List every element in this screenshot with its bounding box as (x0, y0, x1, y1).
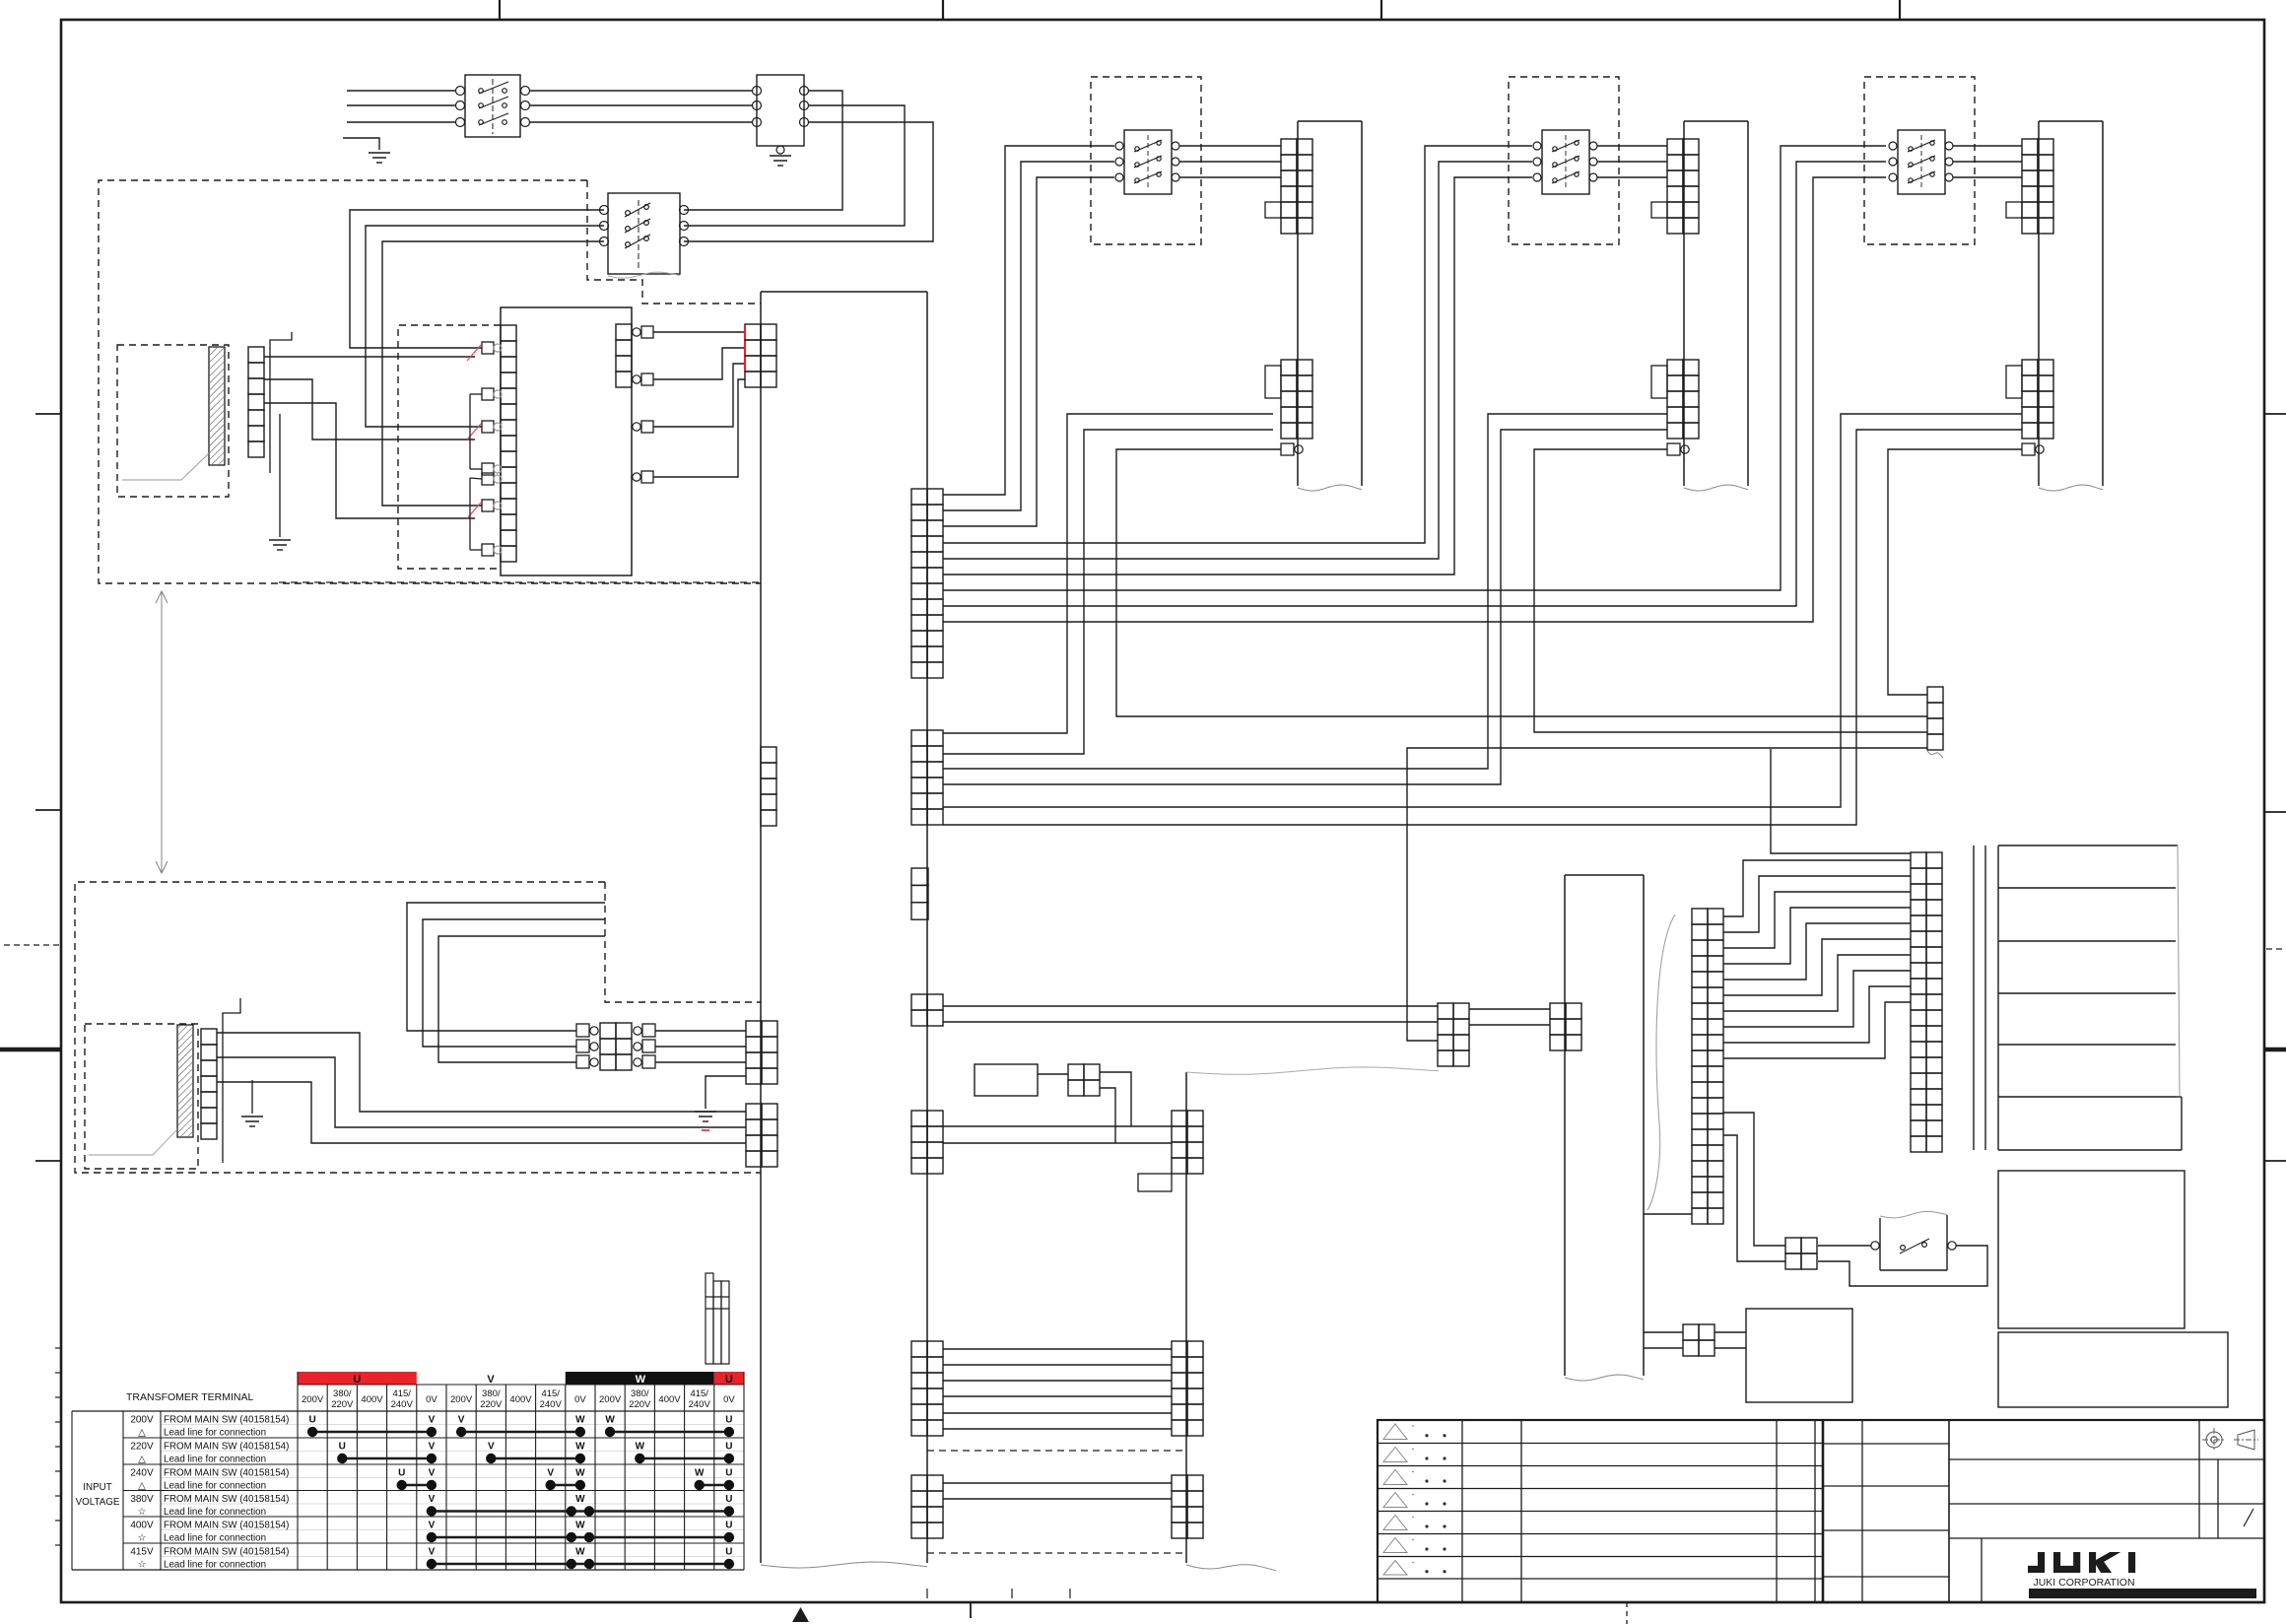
thermostat connector (1683, 1324, 1699, 1340)
ladder strip B2 (1172, 1341, 1187, 1357)
svg-text:V: V (429, 1415, 436, 1426)
svg-text:U: U (308, 1415, 315, 1426)
ladder strip A3 (911, 1475, 927, 1491)
cable lacing curve (1647, 914, 1675, 1210)
ladder rungs top (943, 1125, 1172, 1127)
breaker SW2 (608, 193, 680, 274)
leader line (122, 453, 209, 480)
pin bracket (270, 332, 292, 473)
svg-text:△: △ (138, 1481, 146, 1492)
relay grid G2 (1785, 1238, 1801, 1253)
svg-text:W: W (575, 1494, 585, 1505)
ground wire stub (343, 138, 379, 150)
svg-text:V: V (429, 1521, 436, 1531)
power comb block (1997, 846, 1999, 1150)
unit connector upper (2022, 139, 2038, 155)
aux wires to unit 1 lower connector (943, 414, 1273, 733)
T2 left pin strip (501, 325, 516, 341)
connector strip D (1911, 852, 1926, 868)
svg-text:380/: 380/ (333, 1388, 352, 1399)
title block black bar (2029, 1589, 2256, 1598)
wires into strip D top (1771, 749, 1911, 853)
phase wires to unit 2 (943, 146, 1532, 543)
svg-text:FROM MAIN SW (40158154): FROM MAIN SW (40158154) (164, 1468, 289, 1479)
T2 right pin squares (616, 324, 632, 340)
T1 earth terminal (776, 146, 784, 154)
svg-text:U: U (398, 1468, 405, 1479)
table header bar W black (566, 1372, 714, 1385)
unit breaker (1542, 130, 1589, 194)
frame tick bottom (970, 1602, 972, 1618)
unit connector tab (2006, 202, 2022, 218)
svg-text:U: U (725, 1468, 732, 1479)
svg-text:FROM MAIN SW (40158154): FROM MAIN SW (40158154) (164, 1521, 289, 1531)
svg-text:200V: 200V (130, 1415, 154, 1426)
svg-text:W: W (575, 1442, 585, 1453)
svg-text:△: △ (138, 1428, 146, 1439)
unit connector lower (2022, 360, 2038, 375)
svg-text:240V: 240V (391, 1399, 414, 1410)
hatched connector CN input (209, 347, 225, 465)
table grid lines (298, 1384, 744, 1386)
T2 left external pins (482, 342, 494, 354)
title block revision columns (1461, 1420, 1463, 1602)
wires T1 right going down (684, 91, 842, 210)
revision triangles (1383, 1424, 1407, 1440)
unit inverter box (1298, 120, 1362, 122)
svg-text:380/: 380/ (482, 1388, 501, 1399)
fold ticks on bottom border (926, 1589, 928, 1598)
wires connector to transformer taps (264, 356, 475, 358)
inner pin strip on left edge (761, 747, 776, 763)
aux wires to unit 2 lower connector (943, 414, 1667, 769)
comb feed bus (1973, 846, 1975, 1150)
svg-text:△: △ (138, 1455, 146, 1465)
door switch wires (1818, 1245, 1871, 1247)
dashed enclosure operation panel (75, 882, 761, 1173)
svg-text:FROM MAIN SW (40158154): FROM MAIN SW (40158154) (164, 1442, 289, 1453)
connector strip S3 (911, 868, 928, 885)
frame ticks right (2264, 413, 2286, 415)
svg-text:U: U (725, 1442, 732, 1453)
svg-text:U: U (725, 1547, 732, 1558)
svg-text:U: U (725, 1415, 732, 1426)
shield wire unit3 (1888, 449, 2022, 695)
bottom center triangle mark (792, 1607, 809, 1622)
wires SW1 to T1 (530, 90, 752, 92)
unit dashed enclosure (1091, 77, 1201, 244)
unit wires breaker to connector (1953, 145, 2022, 147)
svg-text:400V: 400V (361, 1394, 383, 1405)
unit shield pin (1281, 443, 1294, 455)
svg-text:VOLTAGE: VOLTAGE (76, 1497, 120, 1508)
control box main rectangle (761, 291, 927, 293)
dashed box around panel connector (85, 1024, 198, 1169)
slash mark (2244, 1509, 2253, 1526)
unit connector tab (1651, 202, 1667, 218)
output connector CN red (745, 324, 761, 340)
svg-text:W: W (695, 1468, 705, 1479)
connector P4 (1927, 687, 1943, 703)
unit wires breaker to connector (1179, 145, 1281, 147)
wires SW2 left dropping to transformer pins (350, 210, 604, 348)
svg-text:415/: 415/ (690, 1388, 708, 1399)
small ruler ticks left of table (55, 1347, 61, 1349)
dashed box around transformer input taps (398, 325, 501, 569)
relay group right grid (1550, 1003, 1566, 1019)
relay group left grid (1438, 1003, 1453, 1019)
cable rail right (1185, 1072, 1187, 1563)
unit inverter box (1684, 120, 1748, 122)
svg-text:Lead line for connection: Lead line for connection (164, 1481, 266, 1492)
svg-text:0V: 0V (723, 1394, 735, 1405)
dashed boundary into control box (279, 581, 761, 583)
wires T2 to output connector (653, 331, 745, 333)
svg-text:415V: 415V (130, 1547, 154, 1558)
svg-text:V: V (458, 1415, 465, 1426)
svg-text:200V: 200V (599, 1394, 622, 1405)
unit lower tab (2006, 366, 2022, 398)
svg-text:200V: 200V (450, 1394, 473, 1405)
svg-text:200V: 200V (302, 1394, 324, 1405)
ground from grid1 (706, 1076, 746, 1109)
connector strip C (1692, 909, 1708, 924)
svg-text:240V: 240V (540, 1399, 563, 1410)
svg-text:☆: ☆ (138, 1507, 147, 1518)
svg-text:220V: 220V (480, 1399, 503, 1410)
svg-text:Lead line for connection: Lead line for connection (164, 1560, 266, 1571)
svg-text:FROM MAIN SW (40158154): FROM MAIN SW (40158154) (164, 1415, 289, 1426)
hatched connector CN panel (177, 1025, 193, 1137)
svg-text:220V: 220V (331, 1399, 354, 1410)
phase wires to unit 3 (943, 146, 1886, 590)
wires fuse to connector grid1 (655, 1030, 746, 1032)
svg-text:220V: 220V (130, 1442, 154, 1453)
relay wires down (1100, 1072, 1131, 1126)
table vertical lines (71, 1411, 73, 1570)
unit dashed enclosure (1864, 77, 1975, 244)
unit breaker (1124, 130, 1172, 194)
ladder strip A2 (911, 1341, 927, 1357)
ladder rungs mid (943, 1348, 1172, 1350)
title block right verticals (2198, 1420, 2200, 1538)
aux wires to unit 3 lower connector (943, 414, 2022, 807)
dashed box around input connector (117, 345, 229, 497)
svg-text:INPUT: INPUT (83, 1482, 111, 1493)
unit wires breaker to connector (1597, 145, 1667, 147)
noise filter T1 (757, 75, 804, 146)
shield wire unit2 (1534, 449, 1927, 732)
svg-text:Lead line for connection: Lead line for connection (164, 1428, 266, 1439)
svg-text:380/: 380/ (631, 1388, 649, 1399)
box G wide nameplate (1998, 1332, 2228, 1407)
svg-text:0V: 0V (426, 1394, 437, 1405)
ladder strip B1 (1172, 1111, 1187, 1126)
svg-text:V: V (429, 1494, 436, 1505)
svg-text:W: W (636, 1442, 645, 1453)
svg-text:W: W (575, 1468, 585, 1479)
table header bar U2 red (714, 1372, 744, 1385)
unit connector lower (1281, 360, 1297, 375)
JUKI logo (2028, 1552, 2045, 1573)
connector strip S1 (911, 489, 927, 505)
svg-text:W: W (636, 1374, 646, 1386)
svg-text:Lead line for connection: Lead line for connection (164, 1455, 266, 1465)
svg-text:V: V (488, 1442, 495, 1453)
unit connector lower (1667, 360, 1683, 375)
shield wire unit1 (1116, 449, 1927, 716)
svg-text:Lead line for connection: Lead line for connection (164, 1507, 266, 1518)
panel pin bracket (223, 998, 240, 1163)
unit shield pin (2022, 443, 2035, 455)
panel connector pins (201, 1029, 217, 1045)
svg-text:W: W (575, 1415, 585, 1426)
unit dashed enclosure (1509, 77, 1619, 244)
svg-text:U: U (353, 1374, 361, 1386)
svg-text:400V: 400V (130, 1521, 154, 1531)
svg-text:0V: 0V (574, 1394, 586, 1405)
double arrow between assemblies (161, 591, 163, 873)
svg-text:V: V (429, 1468, 436, 1479)
frame ticks left (35, 413, 61, 415)
svg-text:400V: 400V (658, 1394, 681, 1405)
svg-text:U: U (725, 1494, 732, 1505)
svg-text:240V: 240V (130, 1468, 154, 1479)
fuse columns above table (706, 1273, 713, 1364)
svg-text:W: W (575, 1521, 585, 1531)
svg-text:FROM MAIN SW (40158154): FROM MAIN SW (40158154) (164, 1547, 289, 1558)
wires from upper dashed to fuse block (407, 903, 605, 1031)
svg-text:U: U (339, 1442, 346, 1453)
unit connector upper (1667, 139, 1683, 155)
svg-text:W: W (605, 1415, 615, 1426)
svg-text:V: V (487, 1374, 495, 1386)
unit connector upper (1281, 139, 1297, 155)
input connector pin squares (248, 347, 264, 363)
svg-text:U: U (725, 1521, 732, 1531)
svg-text:V: V (547, 1468, 554, 1479)
svg-text:220V: 220V (629, 1399, 651, 1410)
unit lower tab (1651, 366, 1667, 398)
panel ground drop (251, 1080, 253, 1114)
connector strip S2 (911, 730, 927, 746)
title block mid rows (1823, 1443, 1949, 1445)
relay K1 connector (1038, 1073, 1068, 1075)
fuse block F1 (600, 1023, 616, 1039)
projection symbol (2206, 1432, 2222, 1448)
transformer T2 body (501, 307, 632, 575)
relay link wires (1469, 1008, 1550, 1010)
svg-text:400V: 400V (509, 1394, 532, 1405)
ladder strip A1 (911, 1111, 927, 1126)
svg-text:☆: ☆ (138, 1560, 147, 1571)
svg-text:V: V (429, 1442, 436, 1453)
wires from S4 to relay group (943, 1005, 1438, 1007)
svg-text:Lead line for connection: Lead line for connection (164, 1533, 266, 1544)
title block right rows (1949, 1458, 2264, 1460)
connector grid S4 (911, 994, 927, 1010)
connector grid1 on control box (746, 1021, 762, 1037)
svg-text:380V: 380V (130, 1494, 154, 1505)
ladder strip B3 (1172, 1475, 1187, 1491)
ground symbol 1 (369, 152, 390, 154)
ladder rungs bottom (943, 1482, 1172, 1484)
svg-text:☆: ☆ (138, 1533, 147, 1544)
unit inverter box (2039, 120, 2103, 122)
svg-text:415/: 415/ (541, 1388, 560, 1399)
leader line 2 (89, 1129, 177, 1155)
ground drop from pins (279, 414, 281, 537)
svg-text:240V: 240V (689, 1399, 711, 1410)
staircase harness C to D (1723, 860, 1911, 916)
inverter box C (1565, 874, 1644, 876)
T2 tap bracket wires (469, 394, 471, 469)
door switch SW4 (1879, 1218, 1881, 1270)
tab on ladder strip B1 (1138, 1174, 1172, 1191)
svg-text:FROM MAIN SW (40158154): FROM MAIN SW (40158154) (164, 1494, 289, 1505)
wires C to relay grid G2 (1723, 1113, 1785, 1246)
main switch SW1 (465, 75, 520, 137)
title block frame (1378, 1420, 2264, 1602)
relay K1 box (975, 1064, 1038, 1096)
svg-text:415/: 415/ (392, 1388, 411, 1399)
unit lower tab (1265, 366, 1281, 398)
box G terminal box (1998, 1171, 2185, 1328)
svg-text:TRANSFOMER TERMINAL: TRANSFOMER TERMINAL (126, 1391, 253, 1403)
table header bar U red (298, 1372, 417, 1385)
svg-text:W: W (575, 1547, 585, 1558)
title block revision rows (1378, 1443, 1823, 1445)
unit connector tab (1265, 202, 1281, 218)
frame tick top (499, 0, 501, 20)
phase wires to unit 1 (943, 146, 1114, 495)
connector grid2 on control box (746, 1104, 762, 1119)
svg-text:JUKI CORPORATION: JUKI CORPORATION (2033, 1577, 2134, 1589)
dashed enclosure main switch assembly (99, 180, 761, 583)
unit breaker (1898, 130, 1945, 194)
unit shield pin (1667, 443, 1680, 455)
dashed rungs (927, 1450, 1186, 1452)
fan box (1746, 1309, 1852, 1402)
svg-text:U: U (725, 1374, 733, 1386)
panel wires to connector grid (217, 1033, 746, 1112)
svg-text:V: V (429, 1547, 436, 1558)
incoming 3-phase wires (347, 90, 455, 92)
wire to solenoid valve group (1407, 748, 1927, 1041)
